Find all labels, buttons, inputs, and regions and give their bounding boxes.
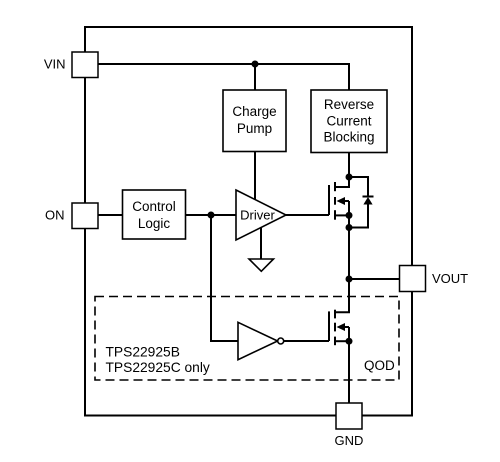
svg-text:Pump: Pump (237, 121, 272, 136)
svg-text:VIN: VIN (44, 57, 66, 72)
svg-text:TPS22925C only: TPS22925C only (106, 360, 210, 375)
svg-text:Reverse: Reverse (324, 97, 374, 112)
svg-text:VOUT: VOUT (432, 271, 468, 286)
svg-text:Blocking: Blocking (323, 130, 374, 145)
svg-text:Driver: Driver (240, 207, 275, 222)
svg-text:Control: Control (132, 199, 176, 214)
svg-text:TPS22925B: TPS22925B (106, 344, 180, 359)
svg-text:Current: Current (326, 113, 371, 128)
svg-text:QOD: QOD (364, 358, 395, 373)
svg-text:Logic: Logic (138, 216, 171, 231)
svg-text:GND: GND (335, 433, 364, 448)
svg-text:Charge: Charge (232, 104, 276, 119)
svg-text:ON: ON (45, 207, 65, 222)
